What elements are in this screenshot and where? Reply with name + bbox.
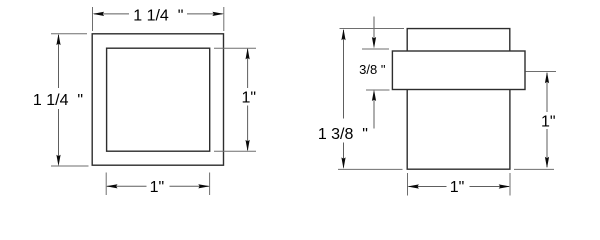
- left view: right inner-height dimension (extension lines, dimension line, arrows): [214, 48, 256, 151]
- left view: outer square outline (1 1/4 x 1 1/4 profile): [92, 34, 223, 165]
- left view: bottom inner-width dimension (extension lines, dimension line, arrows): [106, 173, 210, 196]
- svg-text:1": 1": [450, 179, 465, 196]
- left view: left height dimension (extension lines, dimension line, arrows): [51, 34, 89, 167]
- right view: 3/8 flange-height dimension (outside arrows with tails, extension ticks): [362, 17, 390, 129]
- svg-text:1 1/4 ": 1 1/4 ": [133, 7, 183, 24]
- right view: top cap outline: [407, 29, 510, 51]
- svg-text:3/8 ": 3/8 ": [359, 62, 386, 77]
- left view: top width dimension (extension lines, dimension line, arrows): [93, 7, 224, 31]
- right view: bottom width dimension (extension lines, dimension line, arrows): [407, 173, 510, 196]
- svg-text:1 1/4 ": 1 1/4 ": [33, 92, 83, 109]
- left view: inner square outline (1 x 1 opening): [107, 48, 210, 151]
- svg-text:1 3/8 ": 1 3/8 ": [318, 126, 368, 143]
- svg-text:1": 1": [150, 179, 165, 196]
- right view: overall height dimension (extension lines, dimension line, arrows): [338, 29, 404, 170]
- right view: body outline (1 x 1 base): [407, 90, 510, 170]
- right view: body height dimension (extension lines, dimension line, arrows): [514, 72, 556, 170]
- svg-text:1": 1": [242, 90, 257, 107]
- svg-text:1": 1": [541, 114, 556, 131]
- right view: flange outline (3/8 band): [392, 51, 525, 90]
